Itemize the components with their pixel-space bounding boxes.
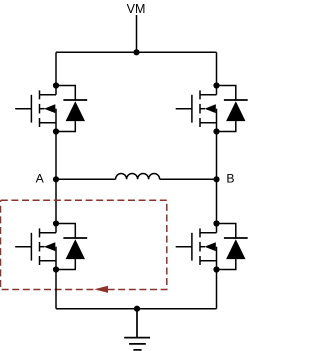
wire top rail	[56, 51, 217, 53]
wire bottom rail	[56, 308, 217, 310]
svg-text:VM: VM	[127, 2, 146, 16]
ground	[124, 309, 150, 350]
wire right rail mid (Q2 source to node B)	[216, 132, 218, 224]
wire VM stem	[136, 15, 138, 52]
wire node A lead	[56, 178, 116, 180]
wire node B lead	[160, 178, 217, 180]
transistor Q3 low-side left with body diode	[15, 220, 87, 272]
wire right rail lower	[216, 270, 218, 309]
current path arrowhead	[94, 286, 108, 293]
wire left rail upper	[55, 52, 57, 85]
junction VM dot	[133, 49, 139, 55]
junction ground dot	[134, 306, 140, 312]
svg-text:A: A	[36, 171, 45, 185]
transistor Q2 high-side right with body diode	[176, 82, 248, 134]
junction node B dot	[213, 176, 219, 182]
junction node A dot	[53, 176, 59, 182]
transistor Q4 low-side right with body diode	[176, 220, 248, 272]
transistor Q1 high-side left with body diode	[15, 82, 87, 134]
wire left rail mid (Q1 source to node A)	[55, 132, 57, 224]
inductor motor winding	[116, 173, 160, 179]
wire right rail upper	[216, 52, 218, 85]
current path dashed box	[1, 200, 167, 289]
svg-text:B: B	[226, 171, 234, 185]
wire left rail lower	[55, 270, 57, 309]
